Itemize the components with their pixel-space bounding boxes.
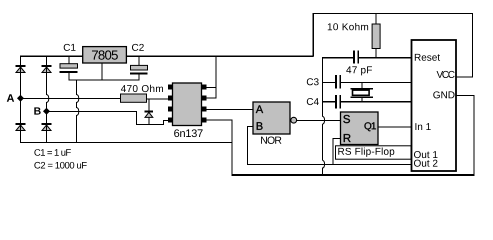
wire VCC pin horizontal: [456, 76, 473, 77]
optocoupler U1 pin 1: [168, 85, 173, 90]
gate U3 label NOR: [261, 136, 281, 143]
wire pin7 to VCC tap: [206, 98, 216, 99]
block U5 Out 1 label: [414, 151, 437, 158]
wire bottom ground rail: [232, 174, 475, 176]
wire VCC tap vertical x=216: [216, 56, 217, 98]
wire NOR output to flip-flop S: [297, 120, 341, 121]
crystal X1 top stub: [361, 82, 362, 89]
wire 47pF net right segment to Reset: [359, 57, 412, 58]
wire pin8 to VCC tap: [206, 87, 216, 88]
block U5 Reset label: [415, 54, 440, 61]
gate U3 input B label: [257, 122, 263, 130]
block U5 GND label: [433, 91, 454, 98]
capacitor C2 label: [132, 44, 144, 51]
wire C3 net right segment: [341, 82, 412, 83]
capacitor C1 label: [64, 44, 76, 51]
wire ground vertical x=231.5: [232, 120, 233, 175]
resistor R1 470 Ohm label: [121, 85, 163, 92]
wire C4 net right segment: [341, 101, 412, 102]
wire top rail left vertical x=312.5: [313, 13, 314, 57]
wire GND vertical to bottom rail: [473, 95, 474, 176]
wire 10 Kohm top stub: [376, 13, 377, 25]
wire C4 net left segment: [322, 101, 336, 102]
wire 10 Kohm bottom stub: [376, 49, 377, 58]
wire node B to pin4 path with hop at x=76: [46, 111, 168, 125]
wire NOR B stub: [247, 126, 253, 127]
wire +5V rail left segment: [20, 56, 83, 57]
block U5 main box: [412, 40, 457, 171]
wire 47pF net left segment: [322, 57, 354, 58]
diode D1 top-left: [16, 65, 26, 73]
wire node A to 470 Ohm with hop at x=76: [20, 98, 121, 99]
wire Out2 net horizontal to right box: [247, 164, 411, 165]
flip-flop U4 box: [341, 112, 379, 145]
flip-flop U4 name box: [336, 146, 412, 159]
block U5 In 1 label: [415, 123, 430, 130]
block U5 VCC label: [437, 71, 455, 78]
optocoupler U1 pin 4: [168, 118, 173, 123]
diode D5 protection: [145, 111, 153, 118]
wire ground bus under 7805: [69, 80, 140, 81]
capacitor C2: [130, 56, 148, 80]
wire flip-flop R vertical: [332, 138, 333, 164]
capacitor 47 pF label: [346, 66, 372, 75]
crystal X1 bottom stub: [361, 98, 362, 102]
wire Q1 to In 1: [378, 127, 411, 128]
resistor R2 10 Kohm label: [328, 23, 368, 30]
node A junction dot: [17, 95, 24, 102]
optocoupler U1 6n137 body: [173, 83, 202, 126]
diode D3 bottom-left: [16, 123, 26, 131]
optocoupler U1 pin 7: [202, 96, 207, 101]
capacitor 47 pF plates: [353, 51, 359, 64]
wire top rail right vertical to VCC pin: [472, 13, 473, 78]
wire +5V rail right segment: [126, 56, 314, 57]
wire 7805 GND pin: [102, 63, 103, 80]
flip-flop U4 R label: [344, 134, 351, 142]
crystal X1 top plate: [350, 88, 373, 90]
node B junction dot: [43, 108, 50, 115]
optocoupler U1 label 6n137: [174, 129, 202, 137]
gate U3 output bubble: [291, 117, 297, 123]
wire flip-flop R stub: [332, 138, 341, 139]
wire ground drop x=76: [76, 80, 79, 143]
wire NOR B vertical x=247: [247, 126, 248, 164]
flip-flop U4 name label RS Flip-Flop: [338, 148, 394, 157]
block U5 Out 2 label: [414, 160, 437, 167]
flip-flop U4 Q1 label: [364, 122, 375, 131]
optocoupler U1 pin 6: [202, 107, 207, 112]
wire C3 net left segment: [322, 82, 336, 83]
node A label: [7, 94, 14, 102]
wire pin5 to ground: [206, 120, 232, 121]
wire top VCC rail: [313, 13, 473, 14]
diode D4 bottom-right: [42, 123, 52, 131]
flip-flop U4 S label: [343, 115, 350, 123]
capacitor C3 plates: [335, 75, 341, 89]
optocoupler U1 pin 8: [202, 85, 207, 90]
crystal X1 body: [353, 90, 370, 95]
capacitor C1: [60, 56, 78, 80]
wire GND pin horizontal: [456, 95, 474, 96]
text note C2 value: [34, 162, 86, 169]
gate U3 input A label: [256, 105, 263, 113]
wire diode drop from pin2 net: [149, 98, 150, 124]
regulator U2 7805: [83, 47, 127, 63]
wire ground rail bottom left: [20, 142, 232, 143]
wire bridge column A vertical: [20, 56, 21, 143]
gate U3 NOR box: [253, 102, 290, 134]
wire pin6 to NOR input A: [206, 109, 253, 110]
wire 470 Ohm to pin2: [147, 98, 169, 99]
resistor R1 470 Ohm: [121, 94, 147, 102]
wire bridge column B vertical with hop over node-A wire: [46, 56, 49, 143]
text note C1 value: [34, 149, 70, 156]
optocoupler U1 pin 5: [202, 118, 207, 123]
diode D2 top-right: [42, 65, 52, 73]
optocoupler U1 pin 2: [168, 96, 173, 101]
resistor R2 10 Kohm: [372, 24, 380, 49]
capacitor C4 plates: [335, 95, 341, 109]
wire oscillator ground vertical x=321 with hops: [322, 57, 325, 175]
capacitor C4 label: [307, 98, 319, 105]
optocoupler U1 pin 3: [168, 107, 173, 112]
crystal X1 bottom plate: [350, 97, 373, 99]
capacitor C3 label: [307, 78, 319, 85]
node B label: [34, 107, 40, 114]
